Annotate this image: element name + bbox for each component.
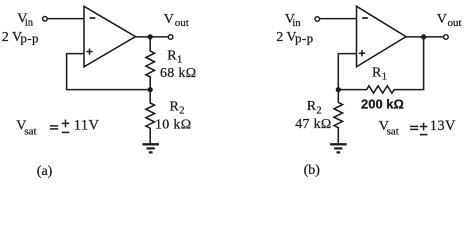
junction output node (a) — [148, 34, 153, 39]
svg-text:11V: 11V — [74, 118, 100, 134]
label Vin (a) — [17, 11, 34, 28]
terminal Vout (b) — [444, 35, 449, 40]
label Vin (b) — [285, 12, 302, 29]
svg-text:V: V — [437, 12, 447, 27]
terminal Vout (a) — [168, 35, 173, 40]
label R1 (b) — [372, 65, 387, 82]
svg-text:sat: sat — [387, 126, 399, 138]
svg-text:2: 2 — [179, 106, 184, 117]
svg-text:(b): (b) — [304, 163, 321, 178]
svg-text:1: 1 — [382, 72, 387, 83]
svg-text:R: R — [167, 48, 177, 63]
svg-text:R: R — [372, 65, 382, 80]
svg-text:2: 2 — [316, 105, 321, 116]
label R2 (a) — [170, 99, 185, 116]
wire op-amp output to Vout (b) — [406, 36, 444, 38]
svg-text:p-p: p-p — [20, 30, 39, 45]
svg-text:2 V: 2 V — [276, 30, 296, 45]
wire feedback from output down (b) — [423, 37, 425, 90]
svg-text:out: out — [448, 17, 462, 29]
resistor R2 (a) — [146, 90, 155, 144]
label Vout (b) — [437, 12, 462, 29]
label R1 (a) — [167, 48, 182, 65]
svg-text:out: out — [175, 17, 189, 29]
wire noninverting input feedback loop (a) — [67, 54, 151, 90]
op-amp U2 (b) — [357, 6, 407, 67]
svg-text:2 V: 2 V — [2, 30, 22, 45]
wire Vin to inverting input (b) — [320, 18, 357, 20]
svg-text:R: R — [170, 99, 180, 114]
svg-text:R: R — [307, 99, 317, 114]
ground (b) — [330, 144, 347, 152]
svg-text:sat: sat — [24, 126, 36, 138]
svg-text:68 kΩ: 68 kΩ — [160, 66, 196, 81]
op-amp U1 (a) — [84, 6, 136, 67]
wire op-amp output to Vout (a) — [136, 36, 169, 38]
svg-text:in: in — [25, 18, 34, 29]
svg-text:1: 1 — [177, 55, 182, 66]
terminal Vin (a) — [43, 17, 48, 22]
svg-text:in: in — [292, 18, 301, 29]
resistor R1 (b) — [338, 86, 423, 93]
label 2 Vp-p (b) — [276, 30, 313, 45]
resistor R1 (a) — [146, 37, 155, 90]
ground (a) — [142, 144, 159, 152]
label Vsat = +/-11V (a) — [16, 118, 99, 138]
svg-text:p-p: p-p — [295, 30, 314, 45]
svg-text:13V: 13V — [430, 118, 456, 134]
label Vsat = +/-13V (b) — [379, 118, 456, 137]
svg-text:V: V — [164, 12, 174, 27]
junction R2 node (b) — [336, 87, 341, 92]
resistor R2 (b) — [334, 90, 343, 144]
label 2 Vp-p (a) — [2, 30, 39, 45]
junction R1-R2 node (a) — [148, 87, 153, 92]
label R2 (b) — [307, 99, 322, 116]
terminal Vin (b) — [315, 17, 320, 22]
svg-text:10 kΩ: 10 kΩ — [155, 117, 191, 132]
label Vout (a) — [164, 12, 189, 29]
svg-text:200 kΩ: 200 kΩ — [361, 96, 404, 111]
wire noninverting input down to R2 node (b) — [338, 54, 356, 90]
svg-text:(a): (a) — [37, 164, 53, 179]
wire Vin to inverting input (a) — [47, 18, 84, 20]
junction output node (b) — [421, 34, 426, 39]
svg-text:47 kΩ: 47 kΩ — [295, 117, 331, 132]
